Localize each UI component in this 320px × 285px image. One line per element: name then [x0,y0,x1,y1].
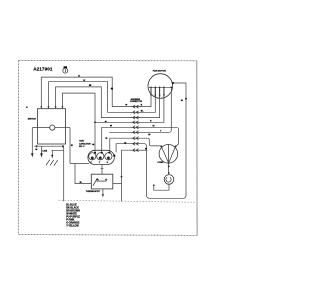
wire label speck near common lead [181,100,183,102]
fan motor pin dot 1 [150,86,152,88]
capacitor HERM terminal tick [113,155,115,157]
capacitor section HERM [105,152,112,160]
wire connector row7 to compressor S terminal [140,138,161,146]
switch bottom terminal T2 [62,145,64,147]
switch pin 2 (top) [48,104,50,109]
wire connector row5 to capacitor C1 middle section [102,127,132,153]
wire label BL near row2 right [141,110,144,112]
switch feed-through wire with lamp [32,127,70,129]
harness connector pin pair row2 [131,111,140,114]
wire connector row9 right stub [140,149,148,151]
fan motor pin 1 arrow [150,94,152,97]
harness connector pin pair row6 [131,131,140,134]
wire connector row6 left stub [109,131,131,133]
wire label speck above row1 left [125,104,127,105]
wire label W near row5 right [153,126,155,128]
thermostat body [91,174,113,189]
svg-text:LINE: LINE [42,150,47,152]
svg-text:350 V: 350 V [79,146,85,148]
fan lead 3 wire to connector row3 [140,87,160,117]
wire label speck near capacitor lead1 [92,144,94,146]
wire label speck on thermostat feed [80,181,82,183]
unit base dashed line [59,200,197,202]
svg-text:RUN: RUN [79,141,84,143]
capacitor common bus wire [70,163,89,165]
part number label A217901 [33,67,53,72]
wire compressor C to overload [168,163,170,175]
wire label speck above row5 [110,125,112,126]
fan motor right terminal blob [172,82,174,84]
svg-text:COMP: COMP [157,162,164,164]
wire W4 switch pin4 to connector row4 and capacitor C1-fan lead [62,93,131,153]
fan motor pin dot 3 [159,86,161,88]
line cord conductor N with arrow [40,146,43,157]
wire switch right side to capacitor bus [69,128,71,164]
svg-text:FAN MOTOR: FAN MOTOR [153,69,167,72]
fan motor common lead wire down right side [140,83,186,198]
thermostat top pin wire to capacitor C terminal [101,164,104,174]
svg-text:Y-YELLOW: Y-YELLOW [66,225,79,228]
wire label speck on row4 left [105,121,107,122]
compressor terminal S [160,145,162,147]
wire label speck left of row7 [105,137,107,138]
wire connector row5 to compressor R terminal [140,127,179,146]
junction label speck [71,144,73,146]
wire connector row7 to capacitor C1 right section [110,138,132,153]
harness connector pin pair row8 [131,142,140,145]
switch bottom jumper wire [34,145,64,147]
wire W3 switch pin3 to connector row3 [56,87,132,118]
compressor label COMP [157,162,164,164]
wire overload to terminal hook [153,184,169,191]
capacitor terminal labels [91,162,109,164]
screw/thermostat knob symbol [63,66,68,73]
wire connector row9 to unit base [122,150,132,201]
switch internal contact circle [50,125,55,130]
run capacitor C1 label [79,141,91,148]
harness connector pin pair row7 [131,137,140,140]
wire label speck near row9 right [145,148,147,149]
junction dot on row9 drop [121,176,123,178]
svg-text:A217901: A217901 [33,67,53,72]
svg-text:THERMOSTAT: THERMOSTAT [86,190,101,193]
compressor windings [161,145,175,164]
fan lead 1 wire to connector row1 [140,87,151,106]
harness connector pin pair row4 [131,121,140,124]
fan motor pin bars [151,88,164,97]
wire label B on W1 [78,75,80,77]
capacitor section C [97,152,104,160]
switch pin 4 (top) [61,104,63,109]
compressor motor body [159,145,178,164]
wire connector row8 left to capacitor edge [116,144,132,153]
thermostat pivot blob [96,179,98,181]
wire label W on W2 [83,80,85,82]
junction dot on common lead [185,98,187,100]
wire label on W1 vertical [111,88,113,90]
svg-text:W: W [83,80,85,82]
thermostat right lead wire [113,182,122,184]
fan motor pin dot 5 [170,86,172,88]
fan motor M1 body [148,74,173,99]
fan motor pin 4 arrow [163,94,165,97]
label LINE [42,150,47,152]
overload internal element [166,177,171,182]
wire W1 switch pin1 to connector row1 [41,77,131,107]
switch pin 1 (top) [40,104,42,109]
svg-text:SWITCH: SWITCH [28,118,37,120]
ground conductor with arrow [51,150,64,158]
harness connector pin pair row1 [131,105,140,108]
fan motor pin dot 2 [154,86,156,88]
junction dot W4/row4 [94,121,96,123]
fan motor M1 label [153,69,167,72]
wire W2 switch pin2 to connector row2 [49,82,132,113]
switch pin 3 (top) [55,104,57,109]
wire label speck near row7 [148,134,150,136]
selector switch SW1 [28,109,66,144]
compressor terminal C bottom [168,162,170,164]
power plug hatching [46,160,58,166]
thermostat label [86,190,101,193]
fan motor pin 3 arrow [159,95,161,98]
switch bottom terminal T1 [36,145,38,147]
harness connector pin pair row3 [131,116,140,119]
overload protector body [164,175,174,185]
wire label BK on W3 [89,84,91,86]
wire color legend [66,204,80,228]
thermostat sensing element [93,179,107,186]
run capacitor C1 body [88,150,114,164]
wire label speck near row8 drop [124,142,126,143]
harness connector label [130,98,143,103]
fan motor pin 2 arrow [154,95,156,98]
fan motor pin dot 4 [163,86,165,88]
wire switch T2 to capacitor common bus [63,146,65,201]
svg-text:W: W [153,126,155,128]
wire label R near row4 right [150,121,152,123]
thermostat bottom pin wire [102,189,104,197]
fan lead 2 wire to connector row2 [140,87,155,112]
capacitor section FAN [89,152,96,160]
compressor terminal R [175,145,177,147]
wire connector row6 to fan motor lead5 [140,88,171,133]
svg-text:CONNECTOR: CONNECTOR [130,101,143,103]
wire label N speck [35,149,37,151]
harness connector pin pair row9 [131,149,140,152]
fan motor winding chord [149,86,173,88]
line cord conductor L1 with arrow [31,128,34,158]
wire bus to thermostat left lead [75,163,91,183]
fan lead 4 wire to connector row4 [140,87,164,122]
wire label B near row1 right [141,105,143,107]
harness connector pin pair row5 [131,126,140,129]
wire label Y near row6 right [160,131,162,133]
